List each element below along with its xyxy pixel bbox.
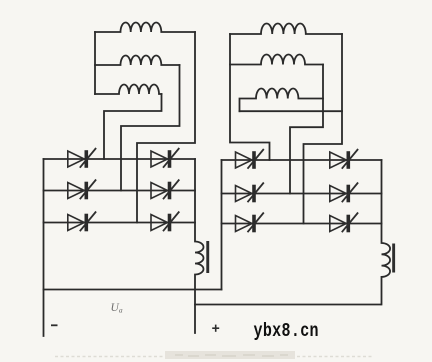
svg-text:ybx8.cn: ybx8.cn [254, 321, 319, 342]
